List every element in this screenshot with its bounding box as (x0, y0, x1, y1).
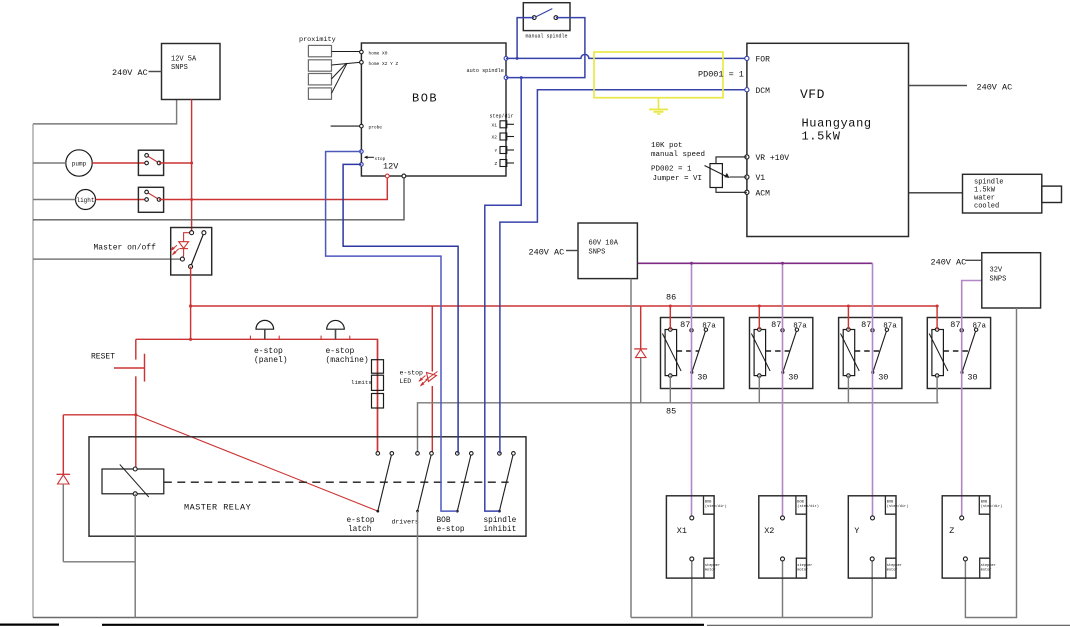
svg-text:87a: 87a (702, 323, 716, 331)
wire 12V bus to relay coils (86) (191, 305, 939, 307)
wire 60V drop to relay K2 / driver X2 (782, 263, 784, 518)
contact e-stop latch (376, 452, 394, 513)
limit switch LS1 (372, 360, 384, 374)
wire 60V bus to relays (637, 262, 872, 264)
label PSU2 value (589, 240, 619, 257)
switch pump SW1 (138, 150, 163, 175)
svg-text:Jumper = VI: Jumper = VI (653, 175, 703, 183)
wire pump switch to 12V rail (159, 162, 192, 164)
wire 86 to relay K2 coil (758, 306, 760, 330)
svg-text:V1: V1 (756, 174, 766, 183)
svg-text:RESET: RESET (91, 353, 115, 362)
svg-text:(panel): (panel) (254, 356, 288, 365)
wire LED to drivers contact (431, 386, 433, 453)
svg-text:BOB: BOB (887, 501, 894, 505)
svg-text:60V 10A: 60V 10A (589, 240, 619, 248)
wire 12V bus to e-stop LED (431, 306, 433, 372)
VFD pin VR +10V (745, 155, 749, 159)
junction 60V bus K1 (690, 262, 693, 265)
svg-text:(machine): (machine) (326, 356, 369, 365)
label 10K pot manual speed (651, 142, 705, 159)
svg-text:MASTER RELAY: MASTER RELAY (184, 503, 251, 513)
junction light/12V (190, 198, 193, 201)
e-stop machine mushroom head (327, 320, 345, 329)
svg-text:pump: pump (72, 161, 87, 168)
contact spindle inhibit (498, 452, 516, 513)
junction chain / master feed (189, 338, 192, 341)
e-stop machine button contacts (321, 336, 350, 340)
wire PSU3 0V to driver Z rail (965, 308, 1016, 618)
svg-text:manual speed: manual speed (651, 151, 705, 159)
e-stop panel button contacts (250, 336, 279, 340)
wire proximity 4 to home pin (332, 63, 348, 93)
switch light SW2 (138, 187, 163, 212)
svg-text:e-stop: e-stop (437, 526, 465, 534)
svg-text:87: 87 (680, 320, 690, 330)
proximity sensor 3 (308, 74, 331, 85)
svg-text:e-stop: e-stop (254, 347, 283, 356)
svg-text:FOR: FOR (756, 56, 771, 65)
svg-text:85: 85 (666, 407, 676, 417)
svg-text:87: 87 (861, 320, 871, 330)
diode D2 flyback relay bank (634, 306, 647, 403)
switch master on/off SW3 (171, 228, 212, 276)
BOB pin e-stop 1 (360, 150, 364, 154)
load pump (motor) (66, 150, 92, 176)
svg-text:87a: 87a (973, 323, 987, 331)
BOB pin probe (360, 124, 364, 128)
wire 12V from PSU1 to master switch (191, 100, 193, 233)
svg-text:SNPS: SNPS (171, 64, 188, 72)
BOB pin home X0 (360, 50, 364, 54)
svg-text:home X2 Y Z: home X2 Y Z (369, 61, 399, 67)
wire latch diagonal to e-stop latch contact (136, 415, 378, 511)
svg-text:DCM: DCM (756, 87, 771, 96)
VFD pin FOR (745, 56, 749, 60)
wire 60V drop to relay K3 / driver Y (872, 263, 874, 518)
VFD pin ACM (745, 190, 749, 194)
svg-text:stepper: stepper (887, 563, 902, 568)
svg-text:10K pot: 10K pot (651, 142, 683, 150)
svg-text:SNPS: SNPS (990, 276, 1007, 284)
proximity sensor 2 (308, 60, 331, 71)
wire driver Y 0V (871, 561, 873, 618)
svg-text:stepper: stepper (705, 563, 720, 568)
svg-text:cooled: cooled (974, 203, 999, 211)
svg-text:manual spindle: manual spindle (526, 34, 568, 40)
wire BOB e-stop 1 to contact pin (326, 152, 458, 512)
master switch contacts (180, 231, 206, 269)
svg-text:motor: motor (887, 568, 898, 573)
stepper driver X2 (759, 496, 819, 578)
svg-text:(step/dir): (step/dir) (887, 504, 909, 509)
relay K2 (750, 318, 813, 389)
stepper driver X1 (666, 496, 726, 578)
svg-text:12V: 12V (383, 162, 399, 172)
wire BOB 0V to left bus (33, 176, 404, 220)
svg-text:1.5kW: 1.5kW (802, 130, 841, 144)
wire 32V supply to relay K4 / driver Z (962, 281, 982, 518)
label e-stop (panel) (254, 347, 288, 365)
wire 0V bus from PSU1 down left side (33, 100, 177, 124)
wire driver 0V rail (631, 617, 872, 619)
wire 0V left bus vertical (32, 124, 34, 618)
wire light switch to BOB 12V pin (159, 176, 387, 200)
svg-text:spindle: spindle (484, 517, 517, 525)
wire VFD to spindle (909, 192, 963, 194)
wire proximity 1 to home X0 (332, 51, 360, 53)
svg-text:X2: X2 (764, 526, 774, 536)
svg-text:latch: latch (348, 526, 371, 534)
label BOB e-stop (437, 517, 465, 534)
junction 86 bus K3 (847, 305, 850, 308)
svg-text:e-stop: e-stop (326, 347, 355, 356)
stepper driver Z (942, 496, 1002, 578)
wire BOB e-stop 2 to contact pin (343, 164, 458, 453)
highlight box PD001 (594, 52, 723, 98)
svg-text:inhibit: inhibit (484, 526, 517, 534)
wire relay K4 coil to 85 bus (936, 376, 938, 403)
master relay coil (102, 464, 164, 497)
svg-text:86: 86 (666, 293, 676, 303)
pushbutton RESET (114, 339, 145, 469)
svg-text:limits: limits (351, 379, 372, 386)
svg-text:spindle: spindle (974, 179, 1003, 187)
svg-text:BOB: BOB (981, 501, 988, 505)
svg-text:ACM: ACM (756, 190, 771, 199)
BOB pin auto spindle (504, 76, 508, 80)
wire limits chain (377, 339, 379, 453)
junction 60V bus K2 (781, 262, 784, 265)
label e-stop latch (347, 517, 375, 534)
svg-text:Z: Z (949, 526, 954, 536)
svg-text:LED: LED (400, 378, 412, 385)
svg-text:(step/dir): (step/dir) (981, 504, 1003, 509)
wire 86 to relay K3 coil (847, 306, 849, 330)
junction 86 bus K2 (758, 305, 761, 308)
svg-text:light: light (76, 197, 94, 204)
junction 86 bus K1 (669, 305, 672, 308)
wire drivers contact to 0V (417, 511, 419, 617)
svg-text:BOB: BOB (705, 501, 712, 505)
wire coil to flyback diode D1 (63, 414, 136, 416)
power supply PSU2 60V 10A SNPS (578, 223, 637, 279)
label PSU3 value (990, 267, 1007, 284)
mechanical link (dashed) (164, 481, 509, 483)
junction pump/12V (190, 162, 193, 165)
relay K4 (927, 318, 990, 389)
svg-text:VFD: VFD (800, 87, 825, 102)
svg-text:BOB: BOB (437, 517, 451, 525)
wire master relay coil to 0V (134, 494, 136, 618)
svg-text:X2: X2 (492, 135, 498, 141)
svg-text:VR +10V: VR +10V (756, 154, 790, 163)
svg-text:water: water (974, 195, 995, 203)
load light (lamp) (76, 190, 96, 210)
VFD pin DCM (745, 88, 749, 92)
wire probe stub (331, 125, 360, 127)
wire driver X2 0V (782, 561, 784, 618)
diode D1 flyback (57, 415, 136, 562)
wire auto spindle to spindle inhibit contact (485, 78, 521, 512)
label e-stop (machine) (326, 347, 369, 365)
svg-text:motor: motor (981, 568, 992, 573)
wire master switch to e-stop chain (190, 267, 192, 340)
BOB pin home X2 Y Z (360, 61, 364, 65)
svg-text:Y: Y (854, 526, 859, 536)
switch manual spindle (523, 3, 570, 31)
svg-text:proximity: proximity (299, 36, 336, 44)
label spindle inhibit (484, 517, 517, 534)
junction 86 bus K4 (936, 305, 939, 308)
wire relay K2 coil to 85 bus (758, 376, 760, 403)
svg-text:BOB: BOB (797, 501, 804, 505)
master relay enclosure (89, 437, 526, 536)
wire 0V bus to light (33, 199, 76, 201)
svg-text:e-stop: e-stop (347, 517, 375, 525)
svg-text:87a: 87a (793, 323, 807, 331)
proximity sensor 4 (308, 88, 331, 99)
wire relay K1 coil to 85 bus (669, 376, 671, 403)
wire 86 to relay K1 coil (669, 306, 671, 330)
wire PSU2 0V down to driver rail (630, 279, 632, 618)
BOB port Y step/dir (500, 147, 507, 154)
svg-text:87: 87 (771, 320, 781, 330)
wire pump to pump switch (92, 162, 146, 164)
svg-text:(step/dir): (step/dir) (797, 504, 819, 509)
svg-text:Z: Z (495, 161, 498, 167)
svg-text:X1: X1 (492, 122, 498, 128)
BOB pin FOR out (504, 57, 508, 61)
junction coil feed (134, 413, 137, 416)
svg-text:Y: Y (495, 148, 498, 154)
wire auto spindle to manual spindle (506, 18, 585, 78)
BOB port X1 step/dir (500, 121, 507, 128)
wire proximity 2 to home pin (332, 62, 360, 65)
sheet bottom border (0, 623, 1070, 626)
wire 0V bottom rail (33, 617, 418, 619)
svg-text:Huangyang: Huangyang (802, 117, 872, 131)
junction 12V bus / master feed (189, 304, 192, 307)
wire 86 to relay K4 coil (936, 306, 938, 330)
wire 0V bus to pump (33, 162, 66, 164)
svg-text:240V AC: 240V AC (112, 68, 148, 78)
svg-text:home X0: home X0 (369, 51, 388, 57)
svg-text:probe: probe (369, 125, 383, 131)
potentiometer 10K (705, 157, 747, 192)
svg-text:Master on/off: Master on/off (94, 244, 157, 253)
BOB pin e-stop 2 (360, 163, 364, 167)
wire 60V drop to relay K1 / driver X1 (691, 263, 693, 518)
svg-text:87a: 87a (883, 323, 897, 331)
svg-text:87: 87 (950, 320, 960, 330)
breakout board BOB (361, 43, 506, 176)
wire proximity 3 to home pin (332, 63, 347, 79)
limit switch LS3 (372, 394, 384, 409)
power supply PSU3 32V SNPS (982, 253, 1041, 308)
wire e-stop chain (136, 339, 378, 453)
svg-text:e-stop: e-stop (400, 370, 424, 377)
BOB pin 0V (402, 174, 406, 178)
svg-text:motor: motor (705, 568, 716, 573)
svg-text:PD001 = 1: PD001 = 1 (698, 70, 744, 80)
wire FOR line BOB to VFD (506, 54, 747, 58)
proximity sensor 1 (308, 45, 331, 56)
svg-text:X1: X1 (677, 526, 687, 536)
ground symbol (yellow) (649, 98, 668, 114)
svg-text:drivers: drivers (392, 519, 419, 526)
svg-text:SNPS: SNPS (589, 249, 606, 257)
svg-text:BOB: BOB (412, 92, 438, 106)
contact BOB e-stop (456, 452, 474, 513)
VFD Huangyang 1.5kW (747, 43, 909, 236)
svg-text:12V 5A: 12V 5A (171, 56, 197, 64)
svg-text:30: 30 (788, 373, 798, 383)
relay K3 (839, 318, 902, 389)
svg-text:step/dir: step/dir (490, 114, 514, 120)
junction auto spindle (520, 76, 523, 79)
svg-text:(step/dir): (step/dir) (705, 504, 727, 509)
svg-text:30: 30 (967, 373, 977, 383)
label PD002 jumper (651, 166, 702, 184)
limit switch LS2 (372, 375, 384, 390)
svg-text:stepper: stepper (797, 563, 812, 568)
wire 0V bus to master switch lamp (33, 258, 182, 260)
svg-text:1.5kW: 1.5kW (974, 187, 996, 195)
svg-text:240V AC: 240V AC (977, 83, 1013, 93)
wire DCM to spindle inhibit contact (500, 90, 747, 454)
svg-text:PD002 = 1: PD002 = 1 (651, 166, 692, 174)
wire manual spindle to FOR line (517, 18, 534, 59)
stepper driver Y (848, 496, 908, 578)
contact drivers (416, 452, 434, 513)
label e-stop LED (400, 370, 424, 386)
LED e-stop indicator (419, 372, 438, 387)
svg-text:stepper: stepper (981, 563, 996, 568)
master switch neon lamp (170, 233, 191, 259)
BOB port X2 step/dir (500, 133, 507, 140)
wire 240V AC to PSU2 (566, 250, 578, 252)
wire light to light switch (96, 199, 147, 201)
label e-stop arrow (365, 156, 374, 158)
VFD pin V1 (745, 175, 749, 179)
wire relay 85 return bus (418, 403, 939, 454)
wire VFD 240V AC (909, 85, 968, 87)
spindle 1.5kW water cooled (963, 174, 1062, 213)
power supply PSU1 12V 5A SNPS (162, 44, 221, 100)
wire relay K3 coil to 85 bus (847, 376, 849, 403)
junction FOR line (516, 57, 519, 60)
label PSU1 value (171, 56, 197, 73)
BOB pin 12V (385, 174, 389, 178)
svg-text:30: 30 (697, 373, 707, 383)
svg-text:auto spindle: auto spindle (467, 68, 504, 74)
svg-text:32V: 32V (990, 267, 1003, 275)
relay K1 (661, 318, 724, 389)
svg-text:240V AC: 240V AC (931, 258, 967, 268)
svg-text:240V AC: 240V AC (529, 248, 565, 258)
svg-text:motor: motor (797, 568, 808, 573)
wire 240V AC to PSU1 (149, 71, 162, 73)
e-stop panel mushroom head (256, 320, 274, 329)
BOB port Z step/dir (500, 160, 507, 167)
wire 240V AC to PSU3 (966, 259, 982, 261)
wire driver X1 0V (691, 561, 693, 618)
svg-text:30: 30 (878, 373, 888, 383)
